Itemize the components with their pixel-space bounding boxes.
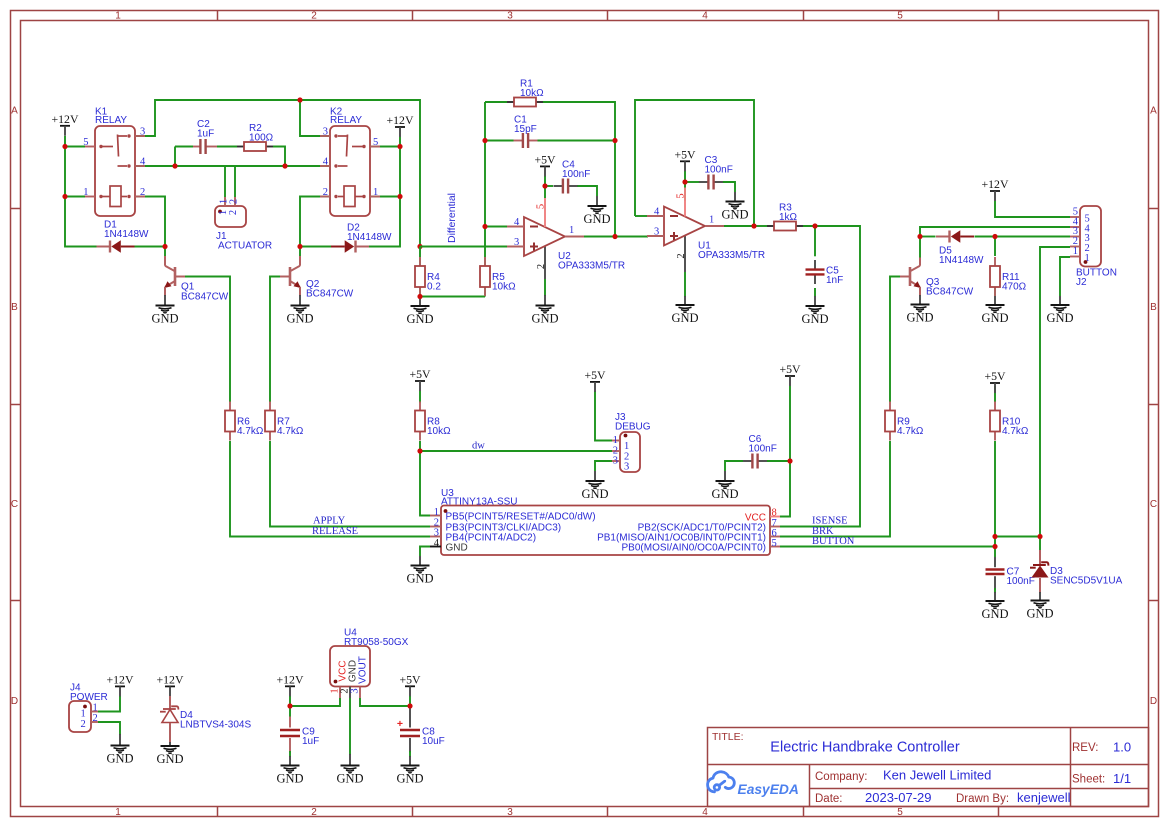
wire U1 output to node: [719, 225, 754, 227]
svg-text:1: 1: [613, 435, 618, 446]
svg-text:RELEASE: RELEASE: [312, 526, 358, 537]
resistor R2: [237, 146, 244, 148]
wire R11 bottom wire: [994, 287, 996, 296]
svg-text:+5V: +5V: [984, 369, 1006, 383]
ground U2 pin2: [544, 295, 546, 306]
svg-text:+5V: +5V: [674, 147, 696, 161]
ground (J2 pin1): [1051, 305, 1070, 312]
svg-text:dw: dw: [472, 441, 485, 452]
+5V flag (R8): [415, 380, 425, 382]
wire D5 left wire: [920, 236, 936, 238]
svg-text:5: 5: [676, 193, 687, 198]
ground (C3): [726, 202, 745, 209]
wire U1 pin2 gnd wire: [684, 272, 686, 297]
svg-text:100nF: 100nF: [1007, 576, 1035, 587]
junction U2 +5V node: [542, 183, 547, 188]
+5V flag (VCC rail): [785, 375, 795, 377]
svg-text:1: 1: [115, 11, 121, 22]
wire C7 bottom: [994, 588, 996, 593]
C1: [514, 140, 523, 142]
wire +5V to C4: [545, 185, 553, 187]
wire Q2 base to R7: [270, 277, 280, 403]
junction D5 left node: [917, 234, 922, 239]
svg-text:GND: GND: [801, 312, 828, 326]
svg-text:Company:: Company:: [815, 771, 867, 783]
svg-text:3: 3: [140, 127, 145, 138]
R7: [269, 402, 271, 411]
op-amp U2 OPA333M5/TR: [524, 217, 565, 256]
wire Q3 collector wire: [919, 237, 921, 258]
ground C6: [724, 471, 726, 481]
svg-text:2: 2: [676, 253, 687, 258]
svg-text:3: 3: [613, 456, 618, 467]
wire K2 pin2 down to Q2 collector node: [300, 197, 330, 247]
wire J4 pin1 to +12V: [98, 696, 120, 712]
relay K1: [95, 126, 135, 216]
svg-text:Drawn By:: Drawn By:: [956, 793, 1009, 805]
wire C6 right wire: [767, 460, 790, 462]
svg-text:1: 1: [569, 225, 574, 236]
wire R4 to gnd node: [419, 287, 421, 297]
wire R8 to MCU pin1: [420, 441, 430, 516]
R10: [994, 402, 996, 411]
svg-text:3: 3: [507, 11, 513, 22]
ground U1 pin2: [684, 296, 686, 305]
connector J3: [620, 432, 640, 472]
svg-text:2023-07-29: 2023-07-29: [865, 790, 932, 805]
ground (U1): [676, 305, 695, 312]
connector J1: [215, 206, 246, 227]
junction Q1 collector node: [162, 244, 167, 249]
wire K2 pin5 to +12V: [370, 146, 400, 148]
svg-text:3: 3: [350, 688, 361, 693]
ground Q3: [919, 295, 921, 305]
R3: [767, 225, 774, 227]
svg-text:GND: GND: [406, 572, 433, 586]
svg-text:GND: GND: [1026, 607, 1053, 621]
svg-text:1: 1: [115, 807, 121, 818]
ground Q1: [164, 295, 166, 306]
ground (U3): [411, 566, 430, 573]
svg-text:2: 2: [311, 11, 317, 22]
wire C3 right to gnd: [723, 182, 735, 192]
wire dw wire: [420, 450, 612, 452]
junction pin4 row / C2 branch: [172, 163, 177, 168]
svg-text:2: 2: [311, 807, 317, 818]
svg-text:4.7kΩ: 4.7kΩ: [237, 426, 264, 437]
svg-text:1.0: 1.0: [1113, 740, 1131, 755]
svg-text:BC847CW: BC847CW: [306, 289, 354, 300]
svg-text:3: 3: [323, 127, 328, 138]
svg-text:2: 2: [536, 264, 547, 269]
svg-text:BC847CW: BC847CW: [926, 287, 974, 298]
svg-text:GND: GND: [711, 487, 738, 501]
ground J4 pin2: [119, 734, 121, 746]
svg-text:1kΩ: 1kΩ: [779, 212, 798, 223]
ground R11: [994, 296, 996, 305]
svg-text:2: 2: [228, 210, 239, 215]
svg-text:+12V: +12V: [107, 672, 134, 686]
+5V flag (U2): [540, 165, 550, 167]
ground (J4): [111, 746, 130, 753]
wire +5V to J3 pin1: [595, 391, 612, 441]
wire U2 output to U1 pin3: [584, 236, 648, 238]
junction D5 right node: [992, 234, 997, 239]
svg-text:15pF: 15pF: [514, 124, 537, 135]
svg-text:10kΩ: 10kΩ: [520, 88, 544, 99]
wire diff node to R4: [419, 247, 421, 267]
R11: [994, 257, 996, 266]
svg-text:3: 3: [514, 237, 519, 248]
svg-text:RELAY: RELAY: [330, 115, 362, 126]
power flag +12V (J4): [115, 685, 125, 687]
svg-text:1: 1: [81, 709, 86, 720]
svg-text:1N4148W: 1N4148W: [104, 229, 149, 240]
capacitor C7: [994, 557, 996, 567]
U1 pin2 lead: [684, 236, 686, 272]
C4: [554, 185, 563, 187]
svg-text:REV:: REV:: [1072, 742, 1098, 754]
wire +12V right rail down to D2: [369, 137, 400, 247]
svg-text:4.7kΩ: 4.7kΩ: [277, 426, 304, 437]
svg-text:GND: GND: [396, 772, 423, 786]
junction Q2 collector node: [297, 244, 302, 249]
wire Q2 node to D2: [300, 246, 331, 248]
svg-text:5: 5: [772, 538, 777, 549]
wire +12V to K1 pin5: [65, 146, 85, 148]
svg-text:4: 4: [702, 807, 708, 818]
wire actuator pin2 drop: [234, 166, 236, 197]
svg-text:+5V: +5V: [584, 368, 606, 382]
svg-text:2: 2: [323, 187, 328, 198]
svg-text:PB5(PCINT5/RESET#/ADC0/dW): PB5(PCINT5/RESET#/ADC0/dW): [446, 512, 596, 523]
ground R4 R5: [419, 297, 421, 307]
svg-text:1: 1: [83, 187, 88, 198]
wire D1 to Q1 collector: [134, 246, 165, 248]
wire D1 left lead wire: [65, 246, 97, 248]
ground (D4): [161, 746, 180, 753]
wire rail to R5 top: [484, 227, 486, 267]
svg-text:4: 4: [702, 11, 708, 22]
wire Q1 collector wire: [164, 247, 166, 257]
wire J3 pin3 to gnd: [595, 461, 612, 471]
wire node to R3: [754, 225, 767, 227]
power flag +12V (J2): [990, 190, 1000, 192]
wire J2 pin2 rail: [1040, 247, 1070, 537]
ground (C8): [401, 766, 420, 773]
ground (C5): [806, 306, 825, 313]
capacitor C9: [289, 717, 291, 728]
svg-text:kenjewell: kenjewell: [1017, 790, 1071, 805]
svg-text:+: +: [397, 718, 403, 730]
power flag +12V (D4): [165, 685, 175, 687]
ground (Q1 emitter): [156, 306, 175, 313]
svg-text:470Ω: 470Ω: [1002, 282, 1027, 293]
svg-text:B: B: [11, 302, 18, 313]
capacitor C8: [409, 706, 411, 728]
R9: [889, 402, 891, 411]
svg-text:+5V: +5V: [409, 367, 431, 381]
D4: [163, 708, 176, 710]
wire +12V C9 node: [289, 696, 291, 717]
wire C8 bottom: [409, 751, 411, 757]
svg-text:1: 1: [373, 187, 378, 198]
wire +5V to C3: [685, 181, 699, 183]
wire R5 bottom wire: [484, 287, 486, 297]
svg-text:LNBTVS4-304S: LNBTVS4-304S: [180, 720, 251, 731]
svg-text:1: 1: [624, 441, 629, 452]
capacitor C2: [193, 146, 200, 148]
wire BUTTON row: [780, 546, 995, 548]
svg-text:ATTINY13A-SSU: ATTINY13A-SSU: [441, 496, 518, 507]
wire +5V to U2 pin5: [544, 176, 546, 198]
C5: [814, 260, 816, 270]
wire differential to U2 pin3: [420, 246, 507, 248]
svg-text:1N4148W: 1N4148W: [939, 255, 984, 266]
svg-text:8: 8: [772, 508, 777, 519]
wire R7 to APPLY row: [270, 441, 430, 527]
wire K1 pin3 / top rail / differential rail: [135, 100, 420, 247]
svg-text:4: 4: [514, 217, 520, 228]
wire +12V to J2 pin5: [995, 201, 1070, 217]
wire MCU gnd pin: [420, 547, 430, 557]
connector J2: [1080, 206, 1101, 267]
wire Q1 base to R6: [185, 277, 230, 403]
wire R4 R5 bottom link: [420, 296, 485, 298]
ground C5: [814, 296, 816, 306]
svg-text:Sheet:: Sheet:: [1072, 774, 1105, 786]
R6: [229, 402, 231, 411]
diode D2 1N4148W: [331, 246, 345, 248]
svg-text:100nF: 100nF: [562, 169, 590, 180]
connector J4: [69, 701, 91, 732]
TVS diode D3: [1039, 550, 1041, 565]
wire C2 branch down: [174, 147, 176, 167]
wire Q3 base to R9: [890, 277, 900, 403]
junction R10 bottom node: [992, 534, 997, 539]
svg-text:BUTTON: BUTTON: [812, 536, 855, 547]
power flag +12V (K1): [60, 125, 70, 127]
svg-text:2: 2: [81, 719, 86, 730]
wire to U2 pin4: [485, 226, 507, 228]
wire C9 bottom: [289, 751, 291, 757]
svg-text:GND: GND: [981, 311, 1008, 325]
wire +12V to K1 pin1: [65, 196, 85, 198]
svg-text:+5V: +5V: [534, 152, 556, 166]
ground (Q2 emitter): [291, 306, 310, 313]
wire D5 node to R11: [994, 237, 996, 257]
D5: [936, 236, 950, 238]
IC U4 RT9058-50GX: [330, 646, 370, 687]
R5: [484, 257, 486, 266]
ground (Q3): [911, 305, 930, 312]
svg-text:Date:: Date:: [815, 793, 843, 805]
junction dw node: [417, 448, 422, 453]
svg-text:GND: GND: [581, 487, 608, 501]
svg-text:3: 3: [507, 807, 513, 818]
MCU U3 ATTINY13A-SSU: [441, 506, 770, 556]
svg-text:100nF: 100nF: [705, 165, 733, 176]
svg-text:Differential: Differential: [446, 193, 458, 243]
wire R10 to button node: [994, 441, 996, 557]
wire K1 pin2 down to Q1 collector node: [135, 197, 165, 247]
wire top rail to K2 pin3: [300, 100, 330, 136]
svg-text:+5V: +5V: [399, 672, 421, 686]
wire K1 pin4 to K2 pin4 row: [135, 165, 330, 167]
junction VCC node: [787, 458, 792, 463]
wire R1 left wire: [485, 101, 507, 103]
svg-text:GND: GND: [531, 312, 558, 326]
svg-text:+12V: +12V: [387, 113, 414, 127]
svg-text:+12V: +12V: [982, 177, 1009, 191]
svg-text:+5V: +5V: [779, 362, 801, 376]
svg-text:4.7kΩ: 4.7kΩ: [1002, 426, 1029, 437]
ground (D3): [1031, 601, 1050, 608]
svg-text:B: B: [1150, 302, 1157, 313]
wire button cross link: [995, 536, 1040, 538]
ground (J3): [586, 481, 605, 488]
ground (U4): [341, 766, 360, 773]
junction pin4 row / R2 branch: [282, 163, 287, 168]
+5V flag (C8): [405, 685, 415, 687]
svg-text:2: 2: [229, 199, 240, 204]
svg-text:SENC5D5V1UA: SENC5D5V1UA: [1050, 576, 1123, 587]
svg-text:+12V: +12V: [157, 672, 184, 686]
svg-text:4: 4: [323, 157, 329, 168]
svg-text:DEBUG: DEBUG: [615, 421, 651, 432]
power flag +12V (K2): [395, 126, 405, 128]
junction U2 pin4 node: [482, 224, 487, 229]
svg-text:1: 1: [93, 703, 98, 714]
wire R3 node down to C5: [814, 226, 816, 256]
svg-text:5: 5: [373, 137, 378, 148]
svg-text:RT9058-50GX: RT9058-50GX: [344, 637, 409, 648]
wire C1 left wire: [485, 140, 514, 142]
wire U4 VOUT to +5V node: [360, 698, 410, 706]
wire R9 to BRK row: [780, 441, 890, 537]
svg-text:1/1: 1/1: [1113, 771, 1131, 786]
R1: [507, 101, 514, 103]
relay K2: [330, 126, 370, 216]
ground (C7): [986, 601, 1005, 608]
wire +5V to R10: [994, 386, 996, 402]
svg-text:BC847CW: BC847CW: [181, 292, 229, 303]
svg-text:GND: GND: [106, 752, 133, 766]
junction R4 gnd node: [417, 294, 422, 299]
svg-text:GND: GND: [446, 542, 468, 553]
junction K1 pin1 node: [62, 194, 67, 199]
svg-text:ACTUATOR: ACTUATOR: [218, 240, 272, 251]
svg-text:GND: GND: [1046, 311, 1073, 325]
R4: [419, 257, 421, 266]
junction BUTTON node: [992, 544, 997, 549]
wire U4 VCC to +12V node: [290, 698, 340, 706]
wire +12V left rail to D1: [65, 136, 98, 247]
op-amp U1 OPA333M5/TR: [664, 207, 705, 246]
ground C3: [734, 192, 736, 202]
svg-text:10kΩ: 10kΩ: [427, 426, 451, 437]
svg-text:GND: GND: [981, 607, 1008, 621]
svg-text:1: 1: [1073, 246, 1078, 257]
svg-text:D: D: [1150, 696, 1157, 707]
wire R1/C1 left rail: [484, 102, 486, 227]
svg-text:A: A: [11, 106, 18, 117]
svg-text:PB0(MOSI/AIN0/OC0A/PCINT0): PB0(MOSI/AIN0/OC0A/PCINT0): [622, 542, 766, 553]
wire +5V to U1 pin5: [684, 171, 686, 201]
svg-text:POWER: POWER: [70, 692, 108, 703]
+5V flag (J3): [590, 381, 600, 383]
svg-text:0.2: 0.2: [427, 282, 441, 293]
svg-text:1uF: 1uF: [302, 736, 319, 747]
junction +5V C8 node: [407, 703, 412, 708]
svg-text:J2: J2: [1076, 277, 1087, 288]
junction +12V K2 pin1 node: [397, 194, 402, 199]
title block: [708, 728, 1149, 807]
ground C4: [596, 196, 598, 206]
svg-text:3: 3: [434, 528, 439, 539]
ground (R4/R5): [411, 306, 430, 313]
junction U1 +5V node: [682, 179, 687, 184]
wire Q2 collector wire: [299, 247, 301, 257]
wire C6 left to gnd: [725, 461, 743, 471]
svg-text:5: 5: [897, 11, 903, 22]
svg-text:4: 4: [654, 207, 660, 218]
svg-text:5: 5: [897, 807, 903, 818]
ground (U2): [536, 306, 555, 313]
transistor Q2: [289, 267, 292, 286]
wire J2 pin4 to D5 node: [920, 227, 1070, 237]
svg-text:GND: GND: [151, 312, 178, 326]
D3: [1033, 564, 1046, 566]
+5V flag (R10): [990, 382, 1000, 384]
svg-text:Ken Jewell Limited: Ken Jewell Limited: [883, 768, 991, 783]
wire U4 gnd wire: [349, 698, 351, 755]
svg-text:1nF: 1nF: [826, 275, 843, 286]
ground (C9): [281, 766, 300, 773]
ground (C4): [588, 206, 607, 213]
svg-text:1: 1: [434, 507, 439, 518]
junction R3 output node: [812, 223, 817, 228]
junction U1 output node: [751, 223, 756, 228]
ground U4: [349, 754, 351, 766]
junction C1 right: [612, 138, 617, 143]
svg-text:GND: GND: [286, 312, 313, 326]
wire C2 left wire: [175, 146, 193, 148]
svg-text:+12V: +12V: [277, 672, 304, 686]
svg-text:GND: GND: [671, 311, 698, 325]
transistor Q3: [909, 267, 912, 286]
svg-text:GND: GND: [276, 772, 303, 786]
wire R3 to ISENSE rail: [780, 226, 860, 527]
junction +12V C9 node: [287, 703, 292, 708]
svg-text:10kΩ: 10kΩ: [492, 282, 516, 293]
svg-text:100Ω: 100Ω: [249, 133, 274, 144]
svg-text:1N4148W: 1N4148W: [347, 232, 392, 243]
ground (C6): [716, 481, 735, 488]
svg-text:GND: GND: [721, 208, 748, 222]
svg-text:1uF: 1uF: [197, 129, 214, 140]
wire C4 right to gnd: [577, 186, 597, 196]
wire U1 pin4 wire: [635, 215, 648, 217]
wire U2 pin2 gnd wire: [544, 279, 546, 296]
svg-text:10uF: 10uF: [422, 736, 445, 747]
svg-text:5: 5: [536, 204, 547, 209]
svg-text:RELAY: RELAY: [95, 115, 127, 126]
svg-text:100nF: 100nF: [749, 444, 777, 455]
junction C1 left: [482, 138, 487, 143]
wire J2 pin1 to gnd: [1060, 257, 1070, 296]
power flag +12V (C9): [285, 685, 295, 687]
